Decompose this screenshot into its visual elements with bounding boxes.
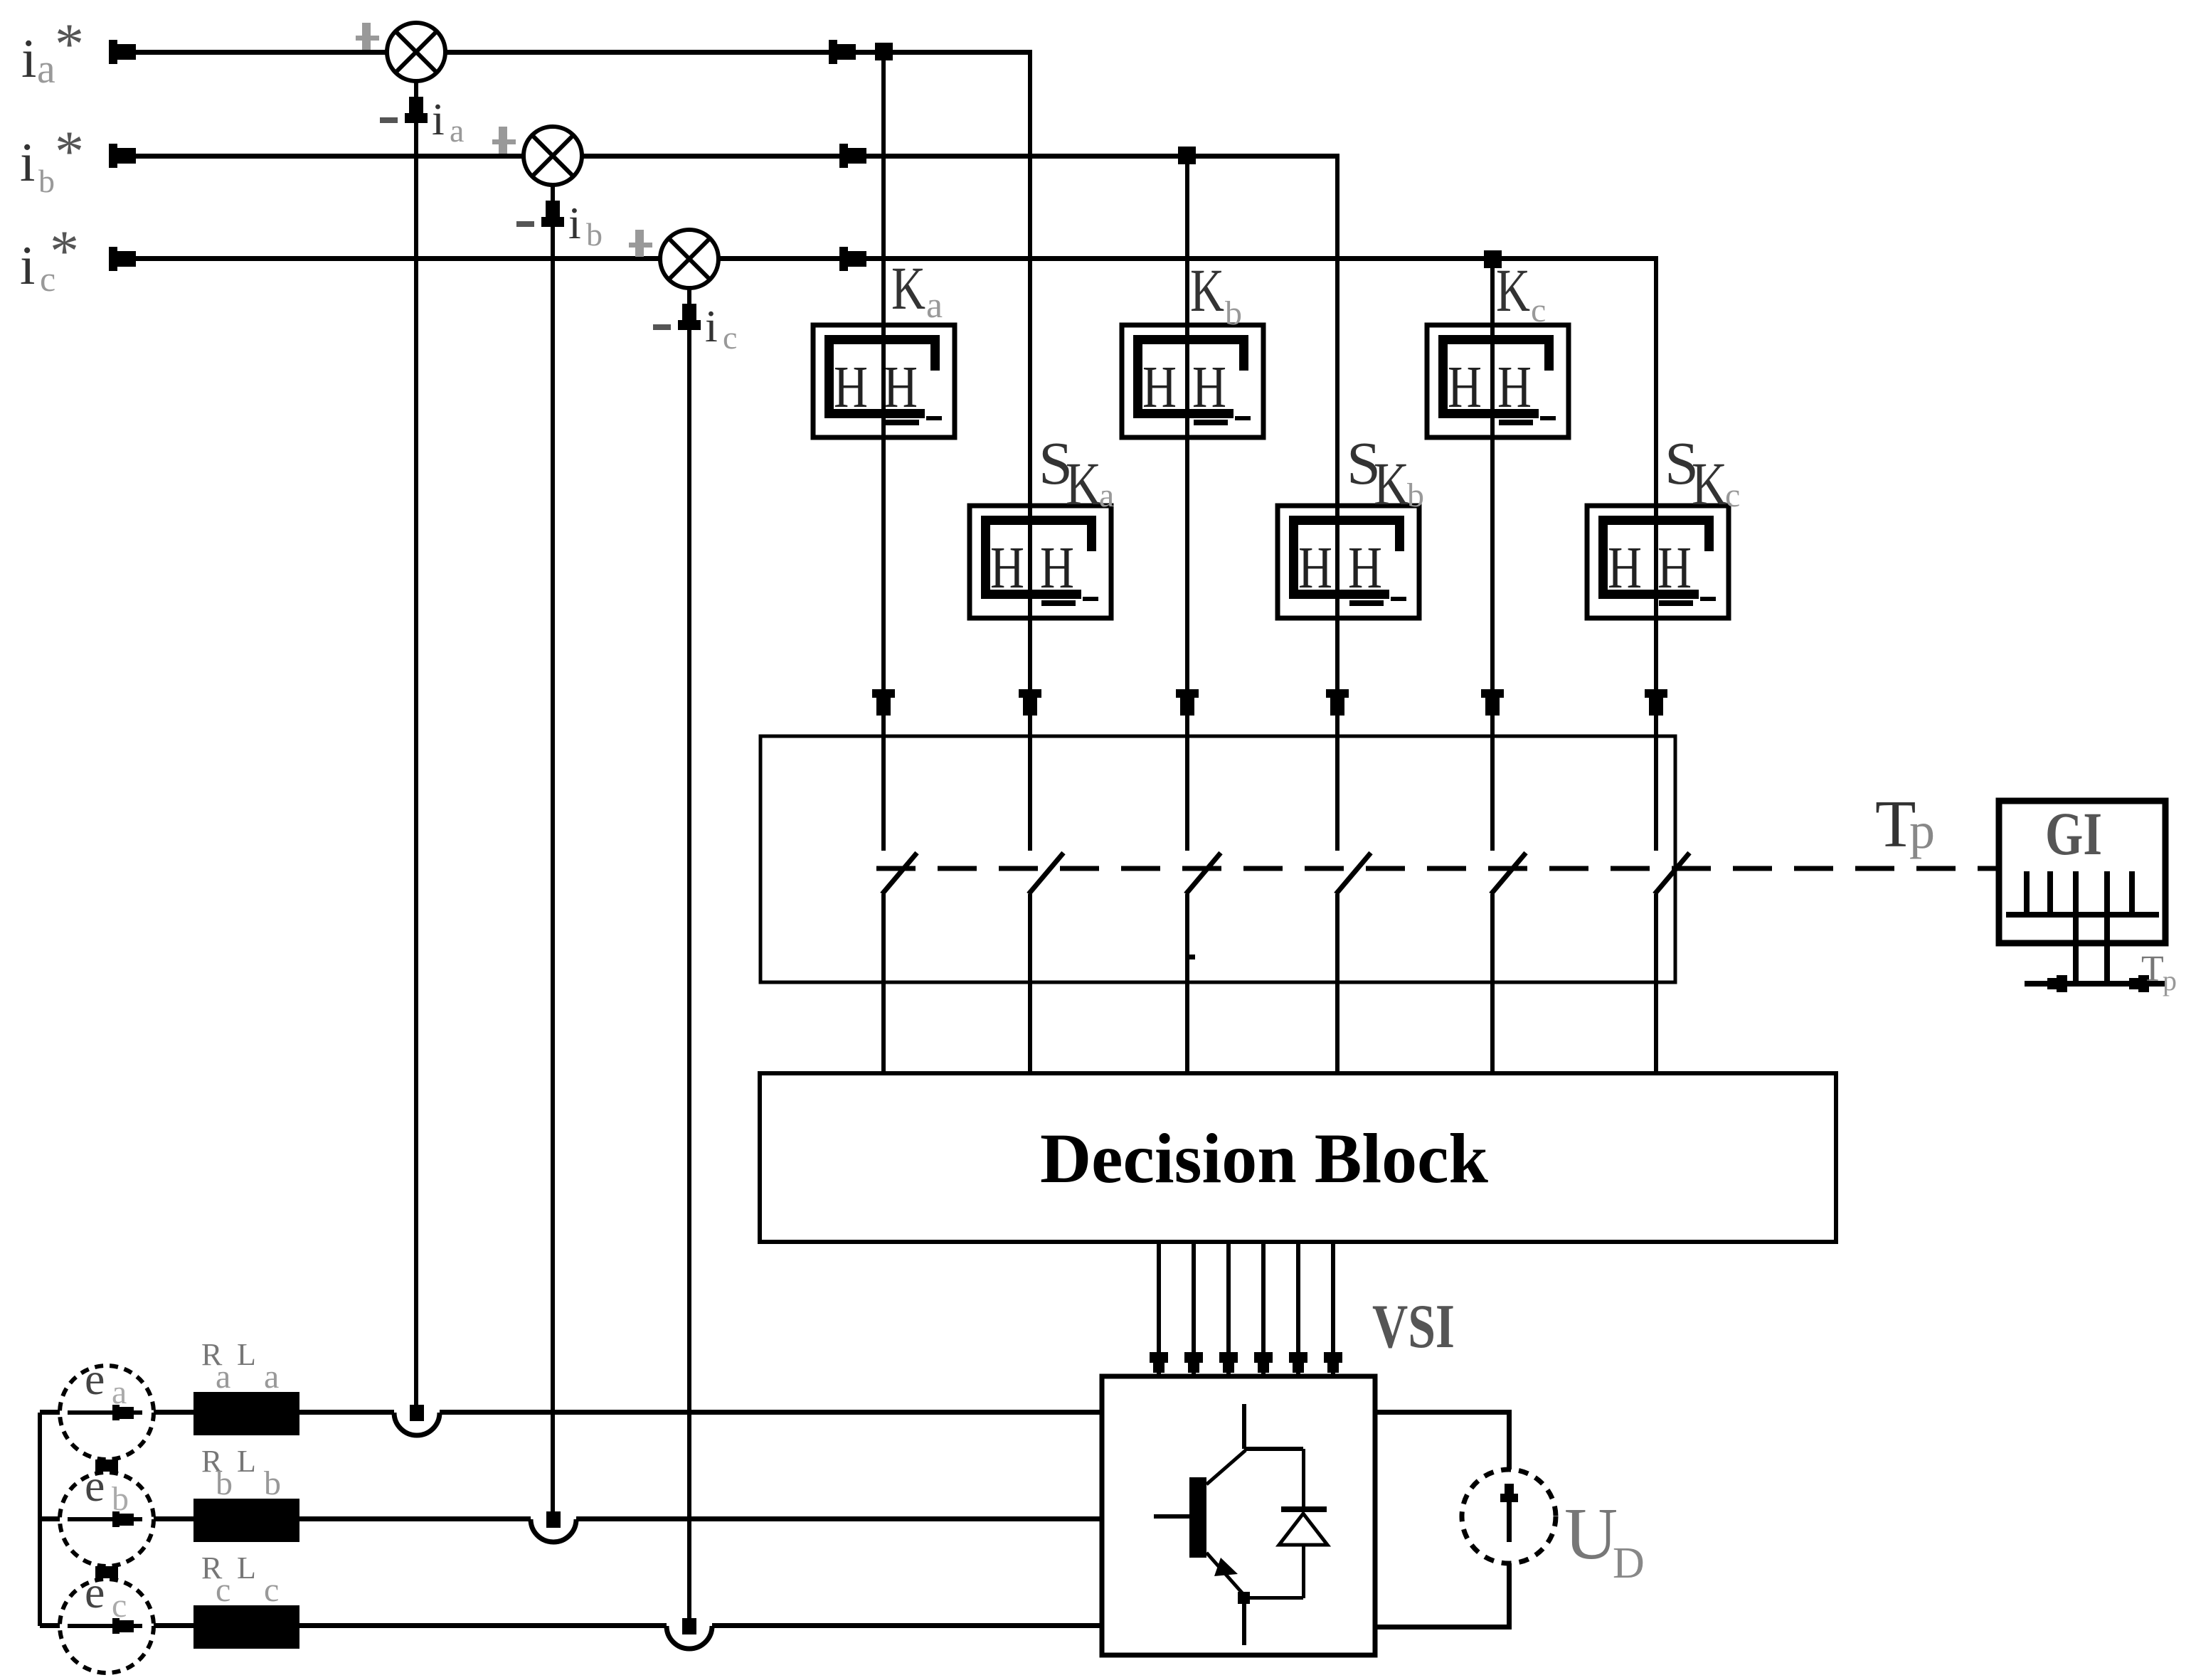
svg-text:c: c [216, 1571, 230, 1609]
svg-text:*: * [55, 119, 84, 184]
arrow gate signal 5 [1289, 1352, 1307, 1363]
current tap ic [667, 1623, 712, 1629]
svg-text:D: D [1613, 1539, 1645, 1588]
diode anode lead [1302, 1545, 1305, 1598]
svg-text:i: i [21, 28, 36, 89]
hysteresis comparator SKb [1278, 506, 1419, 618]
transistor collector lead [1242, 1404, 1246, 1449]
voltage source ea [60, 1366, 154, 1460]
svg-text:a: a [37, 46, 55, 92]
wire SKb input vertical [1335, 154, 1339, 1073]
svg-text:i: i [20, 132, 35, 193]
svg-text:a: a [216, 1358, 230, 1395]
svg-text:i: i [432, 94, 445, 144]
svg-text:K: K [891, 254, 925, 322]
svg-text:c: c [1725, 477, 1740, 514]
svg-text:L: L [237, 1444, 256, 1479]
summing junction sum-c [660, 230, 718, 288]
svg-text:a: a [264, 1358, 279, 1395]
wire VSI to UD bottom [1375, 1625, 1512, 1630]
label - ia [380, 117, 398, 123]
svg-text:Decision Block: Decision Block [1040, 1119, 1488, 1198]
arrow into switch box 6 [1645, 689, 1667, 698]
svg-text:p: p [2163, 964, 2177, 996]
svg-text:K: K [1496, 256, 1530, 324]
wire ia* reference line [117, 50, 1032, 55]
wire phase c [40, 1623, 1102, 1628]
arrow into switch box 4 [1326, 689, 1349, 698]
GI comb tick 4 [2104, 871, 2110, 915]
impedance Rc Lc [193, 1605, 299, 1649]
diode cathode lead [1302, 1449, 1305, 1506]
wire Kb input vertical [1185, 156, 1189, 1073]
GI output wire 2 [2104, 915, 2110, 984]
label - ib [516, 221, 534, 227]
hysteresis comparator Kc [1427, 325, 1569, 437]
arrow GI output 1 [2047, 978, 2057, 989]
hysteresis comparator Ka [813, 325, 955, 437]
GI comb tick 2 [2047, 871, 2053, 915]
arrow input ia* [109, 40, 117, 64]
transistor emitter lead [1242, 1598, 1246, 1645]
arrow mid line ia* [829, 40, 837, 64]
wire ib* reference line [117, 154, 1339, 159]
wire VSI to UD top [1375, 1410, 1512, 1415]
dashed control line Tp [876, 866, 1999, 871]
wire gate signal 5 [1296, 1242, 1300, 1376]
arrow input ib* [109, 144, 117, 168]
diode triangle [1279, 1514, 1327, 1545]
svg-text:GI: GI [2045, 799, 2102, 868]
arrow gate signal 3 [1219, 1352, 1238, 1363]
switch S4 [1335, 851, 1340, 894]
svg-text:c: c [723, 319, 737, 356]
svg-text:*: * [55, 11, 84, 76]
decision block [760, 1073, 1836, 1242]
svg-text:a: a [112, 1373, 127, 1411]
arrow gate signal 1 [1150, 1352, 1168, 1363]
summing junction sum-b [524, 127, 582, 185]
svg-text:b: b [264, 1464, 281, 1502]
current tap ia [394, 1410, 440, 1415]
GI comb tick 1 [2024, 871, 2030, 915]
transistor collector diagonal [1206, 1450, 1246, 1484]
svg-text:K: K [1692, 450, 1727, 518]
hysteresis comparator Kb [1122, 325, 1263, 437]
wire gate signal 4 [1261, 1242, 1266, 1376]
wire feedback ia [414, 81, 418, 1413]
svg-text:K: K [1190, 256, 1224, 324]
svg-text:a: a [1099, 477, 1114, 514]
wire phase b [40, 1516, 1102, 1521]
svg-text:p: p [1909, 802, 1935, 859]
wire gate signal 6 [1331, 1242, 1335, 1376]
voltage source eb [60, 1472, 154, 1566]
hysteresis comparator SKa [970, 506, 1111, 618]
voltage source ec [60, 1579, 154, 1673]
arrow into switch box 1 [872, 689, 895, 698]
DC source UD [1462, 1469, 1556, 1563]
svg-text:b: b [1407, 477, 1424, 514]
arrow GI output 2 [2129, 978, 2138, 989]
arrow mid line ic* [839, 247, 848, 271]
GI comb baseline [2006, 912, 2159, 918]
switch S3 lower stub hook [1185, 895, 1189, 959]
arrow gate signal 6 [1324, 1352, 1342, 1363]
arrow gate signal 4 [1254, 1352, 1273, 1363]
svg-text:c: c [112, 1587, 127, 1625]
impedance Rb Lb [193, 1499, 299, 1542]
wire gate signal 2 [1192, 1242, 1196, 1376]
wire Kc input vertical [1490, 259, 1495, 1073]
wire neutral bus [38, 1413, 42, 1626]
label - ic [653, 324, 671, 330]
svg-text:b: b [216, 1464, 233, 1502]
svg-text:i: i [705, 301, 718, 351]
svg-text:i: i [20, 235, 35, 296]
label + sum-b [492, 139, 516, 144]
svg-text:U: U [1564, 1493, 1618, 1575]
svg-text:*: * [50, 218, 79, 283]
svg-text:i: i [568, 198, 581, 248]
svg-text:b: b [1225, 294, 1242, 332]
wire SKa input vertical [1028, 50, 1032, 1073]
GI comb tick 5 [2129, 871, 2135, 915]
transistor base bar [1189, 1477, 1206, 1558]
transistor emitter arrowhead [1214, 1558, 1238, 1576]
GI output wire 1 [2073, 915, 2079, 984]
switch S5 [1490, 851, 1495, 894]
switch box [760, 736, 1675, 982]
wire ic* reference line [117, 256, 1658, 261]
svg-text:c: c [264, 1571, 279, 1609]
diode cathode bar [1281, 1506, 1327, 1512]
junction source a-b [95, 1460, 118, 1472]
wire feedback ic [687, 288, 691, 1626]
svg-text:L: L [237, 1551, 256, 1585]
switch S6 [1653, 851, 1659, 894]
transistor base lead [1154, 1514, 1189, 1519]
arrow feedback ia up [409, 97, 423, 113]
switch S2 [1027, 851, 1033, 894]
current tap ib [531, 1516, 576, 1522]
GI output line [2025, 981, 2165, 987]
GI comb tick 3 [2073, 871, 2079, 915]
arrow into switch box 3 [1176, 689, 1199, 698]
switch S1 [881, 851, 886, 894]
junction emitter-diode [1238, 1592, 1250, 1604]
arrow input ic* [109, 247, 117, 271]
label + sum-c [629, 243, 652, 248]
svg-text:T: T [2141, 949, 2164, 989]
hysteresis comparator SKc [1587, 506, 1729, 618]
junction line-b to Kb wire [1178, 147, 1196, 164]
svg-text:b: b [38, 163, 55, 199]
wire gate signal 1 [1157, 1242, 1161, 1376]
switch S3 [1184, 851, 1190, 894]
arrow into switch box 5 [1481, 689, 1504, 698]
arrow feedback ib up [546, 201, 560, 217]
wire phase a [40, 1410, 1102, 1415]
svg-text:VSI: VSI [1372, 1292, 1455, 1361]
arrow mid line ib* [839, 144, 848, 168]
summing junction sum-a [387, 23, 445, 81]
wire feedback ib [551, 185, 555, 1519]
svg-text:e: e [85, 1354, 105, 1404]
svg-text:a: a [926, 285, 943, 326]
wire gate signal 3 [1226, 1242, 1231, 1376]
svg-text:K: K [1066, 450, 1101, 518]
transistor emitter diagonal [1206, 1553, 1246, 1597]
arrow into switch box 2 [1019, 689, 1041, 698]
junction line-a to Ka wire [875, 43, 893, 60]
svg-text:K: K [1374, 450, 1409, 518]
svg-text:L: L [237, 1337, 256, 1372]
junction source b-c [95, 1566, 118, 1578]
VSI inverter box [1102, 1376, 1375, 1655]
impedance Ra La [193, 1392, 299, 1435]
wire SKc input vertical [1654, 257, 1658, 1073]
wire Ka input vertical [881, 52, 886, 1073]
pulse generator GI box [1999, 801, 2165, 943]
svg-text:b: b [112, 1480, 129, 1518]
label + sum-a [356, 36, 379, 41]
junction line-c to Kc wire [1484, 250, 1502, 268]
arrow feedback ic up [682, 304, 696, 320]
arrow inside UD [1507, 1494, 1512, 1542]
svg-text:c: c [1531, 292, 1546, 329]
svg-text:b: b [586, 216, 603, 252]
arrow gate signal 2 [1184, 1352, 1203, 1363]
svg-text:a: a [450, 112, 464, 149]
